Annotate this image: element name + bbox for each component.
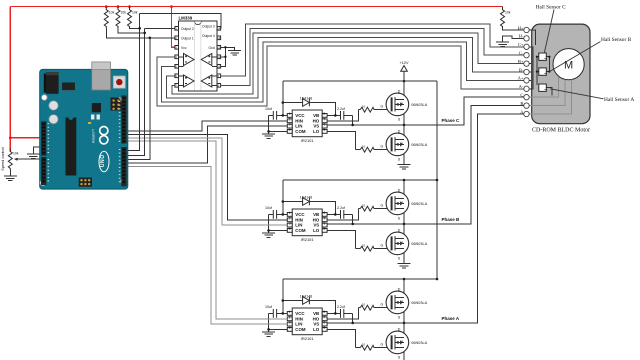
wire comparator out2 to Arduino	[128, 33, 145, 155]
red +5V rail	[10, 6, 502, 8]
svg-text:CD-ROM BLDC Motor: CD-ROM BLDC Motor	[532, 128, 590, 134]
wire +12V link C to B	[436, 81, 438, 180]
svg-text:10k: 10k	[13, 152, 19, 156]
wire R4 to pin H+	[503, 28, 524, 30]
Arduino infinity logo	[100, 127, 108, 135]
svg-text:H-: H-	[519, 34, 524, 39]
ground at potentiometer	[4, 174, 17, 181]
wire +12V link B to A	[436, 180, 438, 279]
potentiometer speed control 10k	[8, 149, 12, 171]
USB interface chip	[92, 103, 101, 112]
svg-text:Hall Sensor C: Hall Sensor C	[536, 4, 567, 10]
wire pin1 Output2	[145, 28, 175, 33]
svg-text:Output 2: Output 2	[181, 27, 194, 31]
node dot rail B	[436, 179, 439, 182]
wire comparator input pin5 to motor A+	[162, 42, 524, 102]
sensor node dots	[536, 56, 551, 73]
svg-text:A+: A+	[518, 76, 524, 81]
wire phase B output to motor pin B	[404, 106, 524, 224]
regulator	[62, 83, 75, 91]
comparator triangle 2	[184, 75, 195, 87]
svg-text:B+: B+	[518, 59, 524, 64]
svg-text:Hall Sensor B: Hall Sensor B	[601, 37, 632, 43]
wire comparator out3 to Arduino	[128, 13, 140, 150]
wire comparator input pin9 to motor C+	[221, 24, 524, 76]
red wire to Arduino 5V pin	[10, 137, 43, 139]
driver stage phase A	[262, 278, 437, 360]
wire LM339 Gnd pins 12,11,10 tie	[221, 47, 235, 66]
svg-text:Phase C: Phase C	[442, 118, 461, 123]
ground at LM339	[228, 48, 241, 55]
svg-text:Output 4: Output 4	[202, 34, 215, 38]
wire node to LM339 pin14 Output3	[140, 13, 221, 28]
red wire down left side	[9, 7, 11, 152]
driver stage phase B	[262, 179, 437, 268]
wire phase C output to motor pin C	[404, 97, 524, 125]
svg-text:B-: B-	[519, 67, 524, 72]
node dot rail A	[436, 278, 439, 281]
LED block	[91, 115, 94, 120]
pot wiper wire to Arduino A0	[15, 158, 44, 160]
svg-text:Output 1: Output 1	[181, 36, 194, 40]
svg-text:B: B	[520, 101, 523, 106]
svg-text:+12V: +12V	[400, 61, 409, 65]
ground at Arduino	[27, 152, 40, 159]
svg-text:UNO: UNO	[100, 154, 106, 167]
header pin marks	[42, 97, 125, 183]
power jack	[44, 74, 47, 93]
svg-text:10k: 10k	[505, 10, 511, 14]
wire HIN phase B from Arduino	[128, 135, 287, 220]
comparator input stubs	[179, 57, 218, 86]
wire comparator input pin6 to motor B-	[167, 37, 524, 98]
svg-text:Gnd: Gnd	[208, 46, 214, 50]
USB connector	[92, 62, 111, 90]
wire R3 to node	[130, 27, 140, 29]
wire HIN phase C from Arduino D	[128, 121, 287, 131]
svg-text:Phase B: Phase B	[442, 217, 461, 222]
wire R1 to LM339 pin2 Output1	[106, 28, 175, 38]
comparator triangle 1	[184, 54, 195, 66]
ICSP header top	[111, 98, 122, 111]
wire LIN phase A from Arduino	[128, 167, 287, 325]
ground at H-	[496, 40, 509, 47]
svg-text:H+: H+	[518, 25, 524, 30]
board pcb	[40, 69, 128, 189]
ICSP header bottom	[79, 178, 92, 187]
LM339 pin boxes left 1-7	[175, 26, 179, 87]
svg-text:Speed control: Speed control	[1, 147, 5, 171]
wire comparator input pin8 to motor C-	[221, 28, 524, 85]
driver stage phase C	[262, 80, 437, 169]
wire LIN phase B from Arduino	[128, 138, 287, 225]
comparator triangle 3	[201, 54, 212, 66]
wire R2 to pin1 jog	[118, 28, 145, 33]
coil wire B	[529, 80, 565, 106]
coil wire C	[529, 77, 558, 98]
svg-text:C-: C-	[519, 51, 524, 56]
svg-text:Vcc: Vcc	[181, 46, 187, 50]
motor body CD-ROM BLDC	[532, 24, 590, 124]
UNO oval logo	[99, 151, 109, 172]
reset button	[113, 76, 125, 88]
svg-text:Output 3: Output 3	[202, 25, 215, 29]
svg-text:Hall Sensor A: Hall Sensor A	[604, 97, 634, 103]
wire comparator out1 to Arduino	[128, 38, 150, 160]
resistor R4 hall pull-up	[502, 7, 504, 10]
red junction dots	[9, 5, 173, 139]
mounting holes	[40, 95, 126, 186]
hall sensor C	[539, 53, 547, 60]
svg-text:LM339: LM339	[179, 15, 193, 20]
svg-text:C+: C+	[518, 42, 524, 47]
svg-text:Arduino™: Arduino™	[92, 129, 96, 143]
wire HIN phase A from Arduino	[128, 141, 287, 319]
header strip right digital	[121, 96, 126, 144]
hall sensor B	[539, 68, 547, 75]
motor pin circles H+ H- C+ C- B+ B- A+ A- C B A	[524, 27, 529, 116]
wire comparator input pin7 to motor B+	[172, 33, 524, 94]
svg-text:Phase A: Phase A	[442, 316, 460, 321]
silkscreen marks	[48, 98, 121, 183]
junction dots outputs	[138, 27, 151, 39]
wire comparator input pin4 to motor A-	[157, 46, 524, 106]
hall sensor A	[539, 84, 547, 91]
svg-text:A-: A-	[519, 84, 524, 89]
wire pin H- to ground	[503, 36, 524, 39]
LM339 pin boxes right 14-8	[217, 26, 221, 87]
ATmega328 DIP	[66, 118, 77, 176]
comparator triangle 4	[201, 75, 212, 87]
svg-text:10k: 10k	[132, 10, 138, 14]
electrolytic capacitors	[49, 101, 58, 110]
wire phase A output to motor pin A	[404, 114, 524, 323]
hall wiring inside motor	[524, 30, 552, 96]
comparator U2 LM339 body	[179, 15, 218, 91]
red wire to LM339 Vcc	[172, 7, 175, 48]
+12V supply arrow	[401, 66, 408, 72]
svg-text:C: C	[520, 93, 523, 98]
motor M circle	[553, 49, 584, 80]
Arduino Uno board	[40, 62, 128, 189]
wire LIN phase C from Arduino	[128, 126, 287, 163]
resistor R2 10k pull-up	[116, 7, 120, 29]
svg-text:10k: 10k	[121, 10, 127, 14]
header strip left power	[41, 121, 46, 155]
svg-text:M: M	[564, 60, 573, 72]
resistor R1 10k pull-up	[104, 7, 108, 29]
header strip left analog	[41, 157, 46, 185]
resistor R3 10k pull-up	[128, 7, 132, 29]
wire Arduino GND pin to ground	[33, 147, 43, 151]
motor pin labels	[518, 25, 525, 114]
coil wire A	[529, 79, 571, 114]
svg-text:10k: 10k	[109, 10, 115, 14]
header strip right lower	[121, 147, 126, 186]
